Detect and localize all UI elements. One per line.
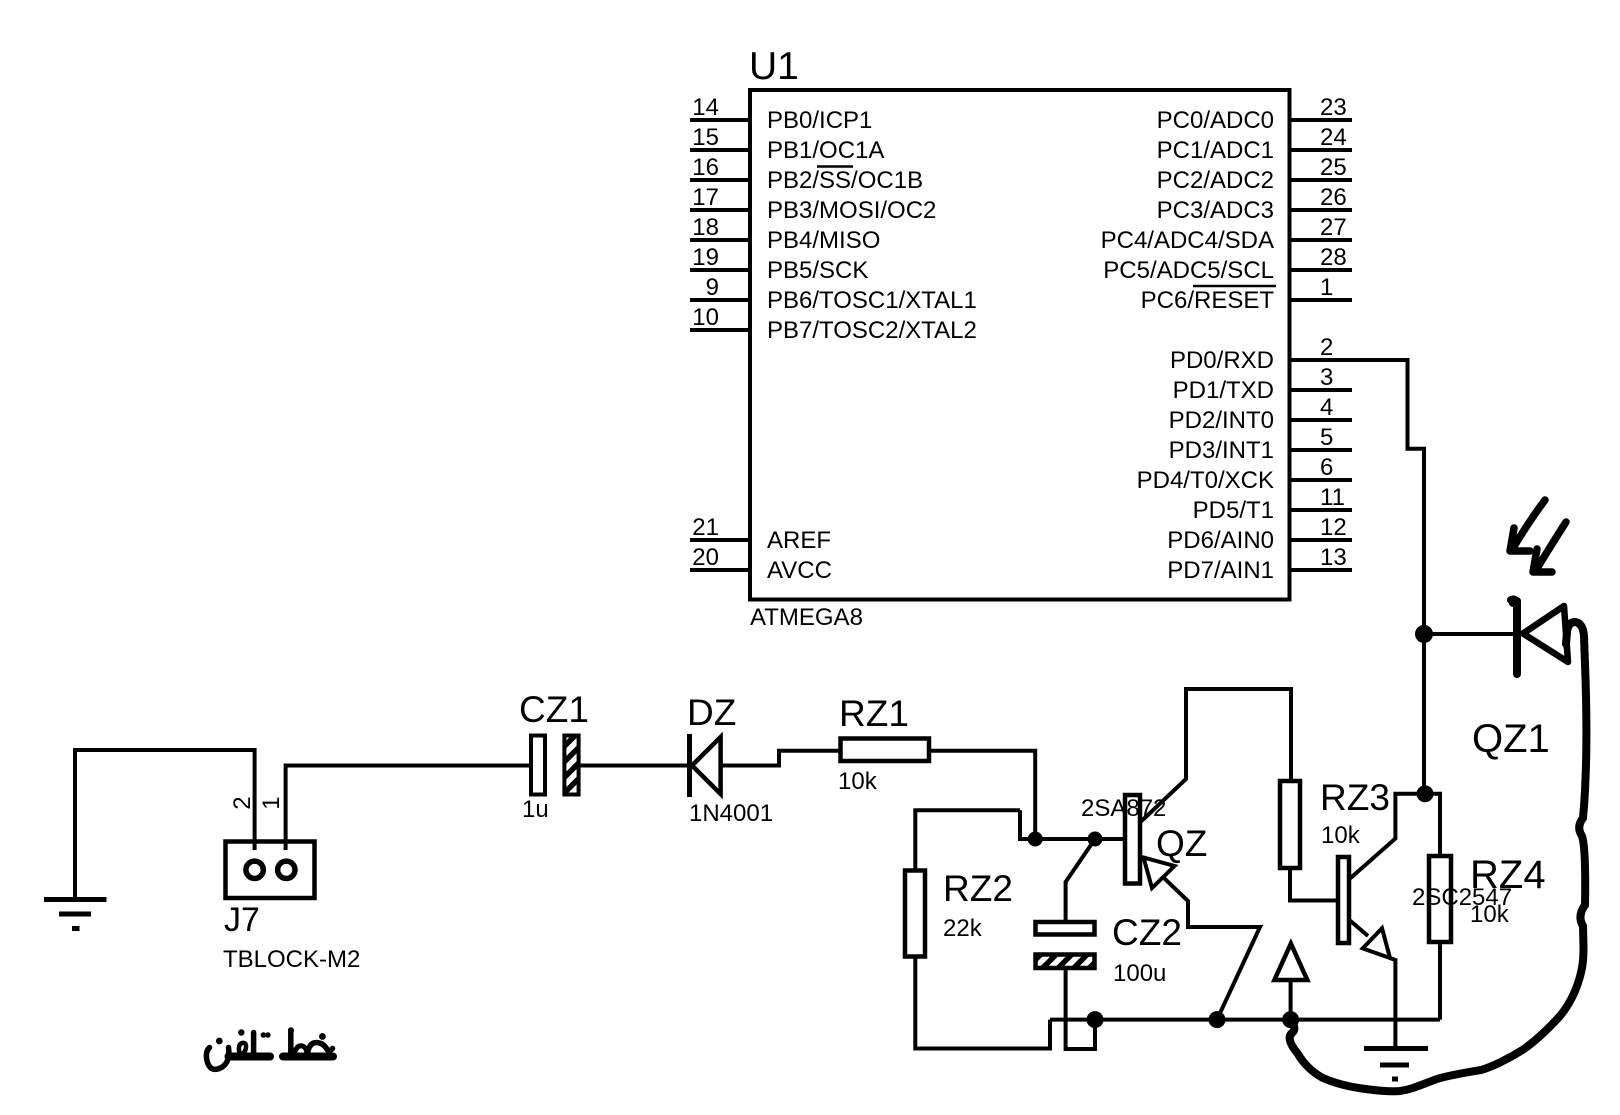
svg-text:11: 11 [1320,484,1345,511]
svg-text:100u: 100u [1113,960,1166,987]
svg-text:PB2/SS/OC1B: PB2/SS/OC1B [767,167,923,194]
svg-text:2SA872: 2SA872 [1081,795,1166,822]
svg-text:PD5/T1: PD5/T1 [1193,497,1274,524]
svg-text:PC0/ADC0: PC0/ADC0 [1157,107,1274,134]
svg-text:RZ2: RZ2 [943,868,1013,909]
svg-text:1u: 1u [522,796,549,823]
svg-text:RZ1: RZ1 [839,693,909,734]
svg-text:PD4/T0/XCK: PD4/T0/XCK [1137,467,1274,494]
svg-text:PD0/RXD: PD0/RXD [1170,347,1274,374]
svg-text:PD1/TXD: PD1/TXD [1173,377,1274,404]
svg-text:PD7/AIN1: PD7/AIN1 [1167,557,1274,584]
svg-text:J7: J7 [224,901,260,939]
svg-text:24: 24 [1320,124,1347,151]
svg-text:PC4/ADC4/SDA: PC4/ADC4/SDA [1101,227,1274,254]
svg-text:17: 17 [692,184,719,211]
svg-text:TBLOCK-M2: TBLOCK-M2 [223,946,360,973]
svg-text:5: 5 [1320,424,1333,451]
svg-text:2: 2 [1320,334,1333,361]
svg-text:13: 13 [1320,544,1347,571]
svg-text:AREF: AREF [767,527,831,554]
svg-text:1: 1 [1320,274,1333,301]
svg-text:PC2/ADC2: PC2/ADC2 [1157,167,1274,194]
svg-text:PB7/TOSC2/XTAL2: PB7/TOSC2/XTAL2 [767,317,977,344]
svg-text:PB3/MOSI/OC2: PB3/MOSI/OC2 [767,197,936,224]
svg-text:10: 10 [692,304,719,331]
svg-text:PD2/INT0: PD2/INT0 [1169,407,1274,434]
svg-text:1N4001: 1N4001 [689,800,773,827]
svg-text:PC5/ADC5/SCL: PC5/ADC5/SCL [1103,257,1274,284]
svg-text:23: 23 [1320,94,1347,121]
svg-text:22k: 22k [943,915,983,942]
svg-text:10k: 10k [1321,822,1361,849]
svg-text:4: 4 [1320,394,1333,421]
svg-text:PC3/ADC3: PC3/ADC3 [1157,197,1274,224]
svg-text:QZ: QZ [1156,823,1207,864]
svg-text:QZ1: QZ1 [1472,717,1550,761]
svg-text:DZ: DZ [687,692,736,733]
svg-text:10k: 10k [1470,901,1510,928]
svg-text:28: 28 [1320,244,1347,271]
svg-text:26: 26 [1320,184,1347,211]
svg-text:RZ3: RZ3 [1320,777,1390,818]
svg-text:18: 18 [692,214,719,241]
svg-text:PD3/INT1: PD3/INT1 [1169,437,1274,464]
svg-text:20: 20 [692,544,719,571]
svg-text:RZ4: RZ4 [1470,853,1546,897]
svg-text:9: 9 [706,274,719,301]
svg-text:14: 14 [692,94,719,121]
svg-text:16: 16 [692,154,719,181]
svg-text:AVCC: AVCC [767,557,832,584]
svg-text:19: 19 [692,244,719,271]
svg-text:PC6/RESET: PC6/RESET [1141,287,1275,314]
svg-text:PB5/SCK: PB5/SCK [767,257,868,284]
svg-text:15: 15 [692,124,719,151]
svg-text:PC1/ADC1: PC1/ADC1 [1157,137,1274,164]
svg-text:CZ2: CZ2 [1112,912,1182,953]
svg-text:6: 6 [1320,454,1333,481]
svg-text:ATMEGA8: ATMEGA8 [750,604,863,631]
svg-text:PB1/OC1A: PB1/OC1A [767,137,884,164]
svg-text:PB4/MISO: PB4/MISO [767,227,880,254]
svg-text:10k: 10k [838,768,878,795]
svg-text:U1: U1 [749,45,799,88]
svg-text:PD6/AIN0: PD6/AIN0 [1167,527,1274,554]
svg-text:25: 25 [1320,154,1347,181]
svg-text:3: 3 [1320,364,1333,391]
svg-text:27: 27 [1320,214,1347,241]
svg-text:12: 12 [1320,514,1347,541]
svg-text:CZ1: CZ1 [519,689,589,730]
svg-text:21: 21 [692,514,719,541]
svg-text:PB0/ICP1: PB0/ICP1 [767,107,872,134]
svg-text:PB6/TOSC1/XTAL1: PB6/TOSC1/XTAL1 [767,287,977,314]
svg-text:2: 2 [229,796,256,809]
svg-text:1: 1 [258,796,285,809]
